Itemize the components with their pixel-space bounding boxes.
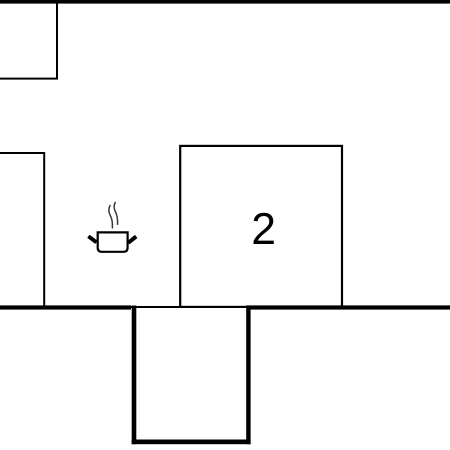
room 2 outline bbox=[180, 146, 342, 307]
pot steam right bbox=[114, 203, 118, 225]
pot body bbox=[98, 232, 128, 251]
room mid-left outline bbox=[0, 153, 44, 307]
wall main horizontal right segment (thick) bbox=[247, 305, 450, 309]
svg-text:2: 2 bbox=[251, 205, 276, 254]
pot left handle bbox=[88, 236, 96, 242]
pot steam left bbox=[109, 206, 113, 228]
room bottom outline (thick walls) bbox=[132, 306, 251, 445]
room top-left outline bbox=[0, 0, 57, 79]
wall top outer (thick) bbox=[0, 0, 450, 4]
pot right handle bbox=[128, 236, 136, 242]
kitchen pot icon bbox=[88, 203, 136, 252]
opening thin line over bottom room bbox=[131, 306, 247, 308]
wall main horizontal left segment (thick) bbox=[0, 305, 131, 309]
